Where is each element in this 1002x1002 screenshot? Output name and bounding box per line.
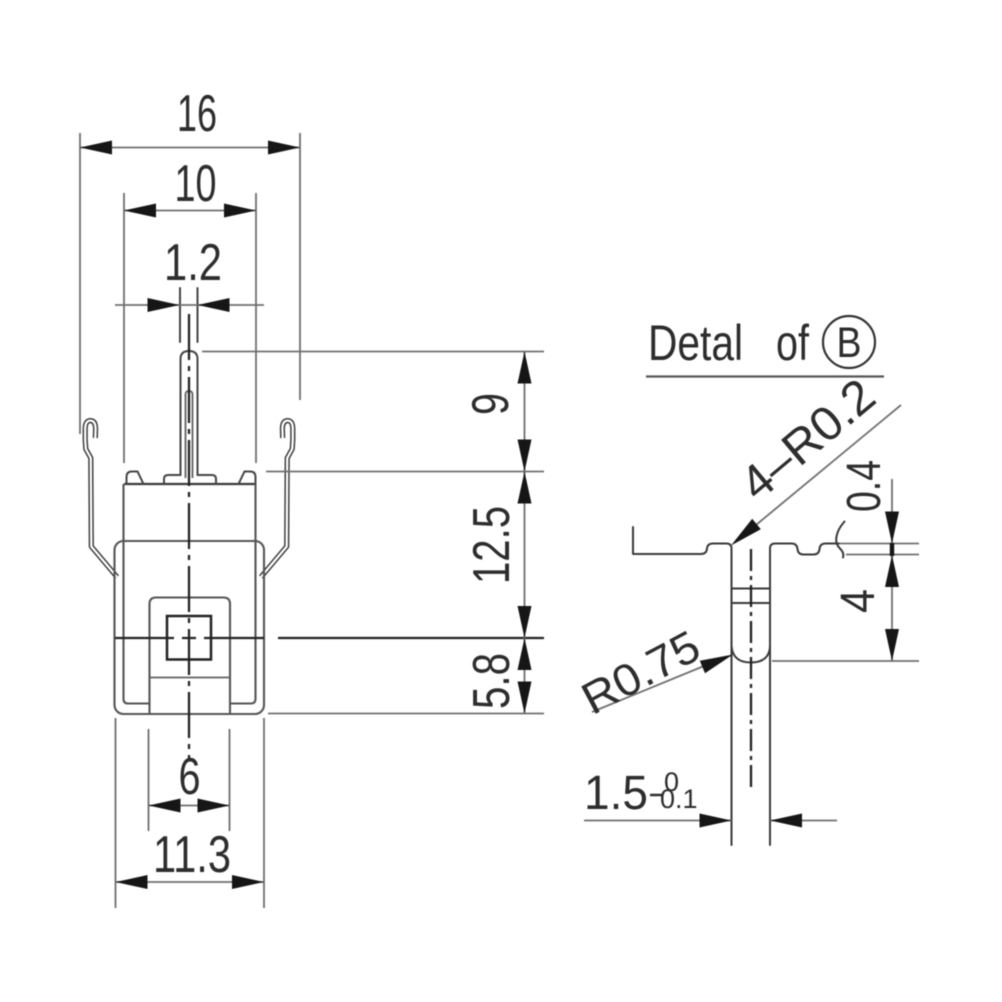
svg-text:0.1: 0.1 bbox=[660, 784, 698, 814]
dim 4 bottom arrow bbox=[885, 629, 899, 661]
center square contact bbox=[167, 616, 211, 660]
pin crimp lines bbox=[732, 589, 771, 604]
dim 1.2 ticks bbox=[180, 288, 198, 342]
detail centerline bbox=[750, 549, 752, 791]
dim 0.4/4 dimension line bbox=[891, 479, 893, 661]
right mounting clip bbox=[261, 421, 293, 577]
dim 1.5 arrows bbox=[700, 814, 732, 828]
dim 16 arrows bbox=[80, 141, 112, 155]
detail flange profile right bbox=[770, 544, 839, 846]
dim 11.3 line bbox=[116, 881, 265, 883]
dim 6 extension lines bbox=[149, 729, 230, 831]
svg-text:10: 10 bbox=[175, 155, 217, 213]
extension line plunger top bbox=[202, 351, 544, 353]
plunger stem bbox=[181, 351, 198, 475]
right plate tab bbox=[239, 472, 256, 485]
svg-text:1.5: 1.5 bbox=[584, 767, 648, 820]
dim 16 line bbox=[80, 147, 300, 149]
frame side walls bbox=[124, 484, 150, 704]
extension line body bottom bbox=[268, 713, 544, 715]
svg-text:9: 9 bbox=[462, 393, 520, 415]
dim 5.8 arrows bbox=[518, 638, 532, 670]
dim 10 arrows bbox=[124, 204, 156, 218]
middle block bbox=[150, 598, 231, 715]
dim 1.2 arrows bbox=[148, 298, 180, 312]
svg-text:11.3: 11.3 bbox=[153, 826, 231, 884]
left plate tab bbox=[127, 472, 144, 485]
right vertical dimension line bbox=[524, 352, 526, 714]
svg-text:16: 16 bbox=[177, 85, 217, 143]
dim 16 extension lines bbox=[80, 133, 300, 434]
svg-text:4: 4 bbox=[832, 589, 885, 613]
svg-text:5.8: 5.8 bbox=[463, 653, 521, 709]
horizontal centerline bbox=[115, 637, 544, 639]
svg-text:Detal: Detal bbox=[648, 315, 743, 371]
dim 6 arrows bbox=[149, 799, 181, 813]
dim 10 extension lines bbox=[124, 193, 256, 463]
dim 11.3 arrows bbox=[116, 875, 148, 889]
dim 11.3 extension lines bbox=[116, 718, 265, 908]
dim 1.5 line bbox=[584, 820, 837, 822]
dim 0.4 arrows bbox=[885, 512, 899, 544]
dim 6 line bbox=[149, 805, 230, 807]
svg-text:12.5: 12.5 bbox=[463, 506, 521, 584]
dim 12.5 arrows bbox=[518, 472, 532, 504]
left mounting clip bbox=[85, 421, 117, 577]
leader 4-R0.2 bbox=[736, 405, 901, 542]
svg-text:of: of bbox=[776, 315, 809, 371]
svg-text:B: B bbox=[837, 319, 862, 367]
center pedestal bbox=[164, 475, 216, 484]
leader R0.75 bbox=[592, 666, 704, 712]
pin round tip R0.75 bbox=[732, 646, 771, 663]
frame top plate bbox=[124, 483, 256, 485]
detail title circle B bbox=[823, 316, 875, 368]
detail title underline bbox=[646, 375, 884, 377]
svg-text:1.2: 1.2 bbox=[164, 234, 222, 292]
vertical centerline bbox=[188, 314, 190, 758]
dim 0.4 extension lines bbox=[840, 544, 919, 555]
dim 1.2 line bbox=[115, 304, 264, 306]
extension line frame top bbox=[266, 471, 544, 473]
detail break curve bbox=[836, 522, 844, 558]
dim 4 bottom extension bbox=[772, 660, 919, 662]
dim 9 arrows bbox=[518, 352, 532, 384]
svg-text:6: 6 bbox=[179, 748, 201, 806]
middle block seam bbox=[150, 677, 231, 679]
switch body bbox=[115, 541, 265, 714]
svg-text:0.4: 0.4 bbox=[838, 460, 891, 512]
plunger inner slot bbox=[186, 391, 193, 478]
dim 10 line bbox=[124, 210, 256, 212]
detail flange profile left bbox=[633, 527, 732, 845]
